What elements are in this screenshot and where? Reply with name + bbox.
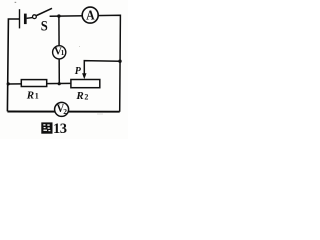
svg-text:13: 13	[53, 121, 67, 137]
svg-text:2: 2	[63, 107, 67, 116]
svg-text:P: P	[75, 66, 82, 77]
svg-text:2: 2	[84, 93, 88, 102]
svg-text:R: R	[26, 89, 34, 101]
svg-text:A: A	[86, 7, 95, 23]
svg-text:1: 1	[35, 92, 39, 101]
svg-text:1: 1	[61, 49, 65, 57]
svg-text:R: R	[75, 90, 83, 102]
svg-text:S: S	[41, 17, 48, 33]
